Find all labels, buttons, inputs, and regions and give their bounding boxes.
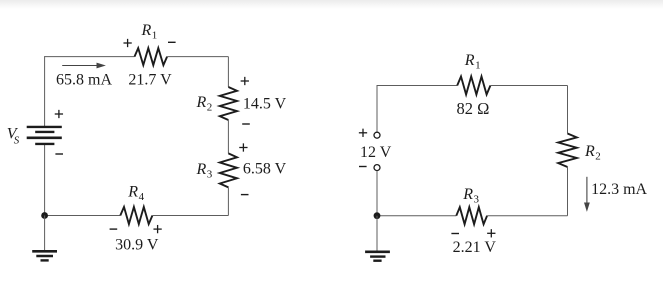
svg-text:30.9 V: 30.9 V <box>115 236 159 253</box>
svg-text:1: 1 <box>152 30 158 42</box>
svg-text:1: 1 <box>475 60 481 72</box>
svg-text:82 Ω: 82 Ω <box>457 99 490 118</box>
svg-text:14.5 V: 14.5 V <box>243 96 287 113</box>
svg-text:2: 2 <box>595 151 601 163</box>
svg-text:3: 3 <box>474 194 480 206</box>
svg-text:R: R <box>464 52 475 69</box>
svg-text:R: R <box>584 143 595 160</box>
svg-text:3: 3 <box>207 169 213 181</box>
svg-text:R: R <box>196 161 207 178</box>
svg-text:65.8 mA: 65.8 mA <box>56 71 112 88</box>
svg-text:6.58 V: 6.58 V <box>243 161 287 178</box>
svg-text:R: R <box>127 184 138 201</box>
svg-text:R: R <box>141 22 152 39</box>
svg-text:2: 2 <box>207 102 213 114</box>
svg-text:12 V: 12 V <box>360 144 392 161</box>
svg-text:R: R <box>196 94 207 111</box>
svg-text:12.3 mA: 12.3 mA <box>591 181 647 198</box>
svg-text:4: 4 <box>139 191 145 203</box>
svg-text:21.7 V: 21.7 V <box>128 71 172 88</box>
svg-text:R: R <box>462 186 473 203</box>
svg-text:2.21 V: 2.21 V <box>453 239 497 256</box>
svg-text:S: S <box>14 134 20 146</box>
